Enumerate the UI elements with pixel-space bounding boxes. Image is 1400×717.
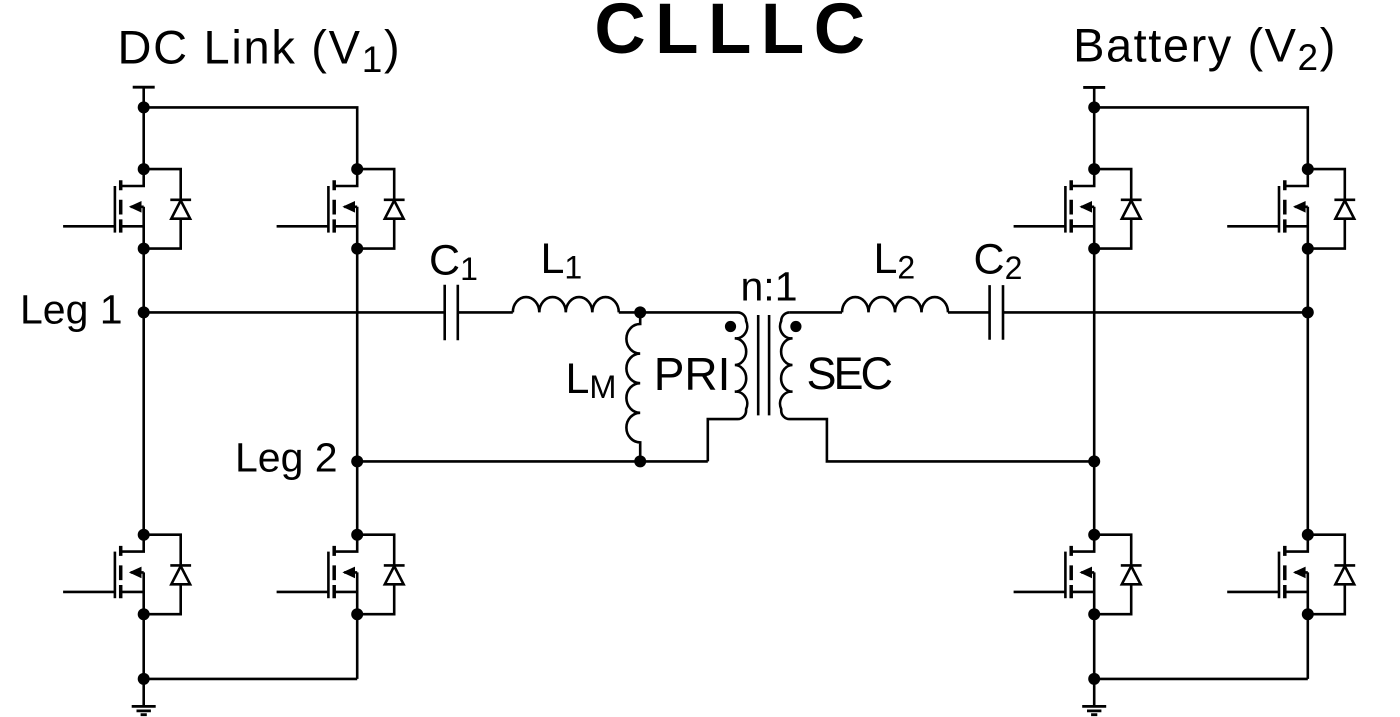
transistor Q8 (right bridge, right leg low side) [1227, 529, 1355, 621]
wire: L2 to C2 [948, 311, 989, 314]
secondary polarity dot [790, 321, 801, 332]
transistor Q1 (left bridge, leg1 high side) [63, 163, 191, 255]
node Leg 1 (dot) [138, 306, 150, 318]
node DC+ (dot) [138, 101, 150, 113]
transformer primary winding [640, 312, 747, 461]
wire: right bridge right leg mid [1307, 249, 1310, 535]
svg-text:LM: LM [566, 355, 617, 405]
transistor Q5 (right bridge, left leg high side) [1014, 163, 1142, 255]
svg-text:CLLLC: CLLLC [594, 0, 874, 69]
svg-text:L1: L1 [541, 235, 583, 286]
svg-text:n:1: n:1 [741, 264, 798, 310]
svg-text:Battery (V2): Battery (V2) [1073, 19, 1337, 78]
wire: Leg 1 to C1 [144, 311, 444, 314]
transistor Q7 (right bridge, left leg low side) [1014, 529, 1142, 621]
wire: SEC to L2 [790, 311, 842, 314]
transistor Q4 (left bridge, leg2 low side) [277, 529, 405, 621]
wire: C2 to right bridge leg2 [1003, 311, 1308, 314]
node BAT+ (dot) [1088, 101, 1100, 113]
svg-text:DC Link (V1): DC Link (V1) [117, 21, 401, 80]
transistor Q3 (left bridge, leg1 low side) [63, 529, 191, 621]
wire: C1 to L1 [458, 311, 513, 314]
wire: right bridge top rail [1094, 107, 1308, 169]
svg-text:C1: C1 [429, 237, 478, 288]
svg-text:Leg 1: Leg 1 [20, 286, 123, 332]
capacitor C1 [445, 285, 458, 341]
wire: right leg mid (Q2 source to Q4 drain) [356, 249, 359, 535]
wire: right bridge left leg mid [1093, 249, 1096, 535]
node Leg 2 (dot) [351, 455, 363, 467]
node DC- (dot) [138, 673, 150, 685]
transistor Q2 (left bridge, leg2 high side) [277, 163, 405, 255]
wire: L1 to node A [619, 311, 640, 314]
svg-text:L2: L2 [874, 235, 916, 286]
wire: Leg 2 to node B [357, 460, 640, 463]
inductor L1 [513, 297, 619, 312]
primary polarity dot [725, 321, 736, 332]
node right leg1 (dot) [1302, 306, 1314, 318]
wire: right bridge bottom rail [1094, 614, 1308, 679]
svg-text:SEC: SEC [807, 348, 892, 399]
wire: left bridge bottom rail [144, 614, 358, 679]
transformer core [758, 315, 769, 415]
inductor L2 [842, 297, 948, 312]
inductor Lm (magnetizing) [626, 312, 640, 461]
ground (right) [1082, 679, 1106, 715]
svg-text:C2: C2 [974, 235, 1023, 286]
DC link positive terminal [133, 87, 155, 107]
svg-text:PRI: PRI [654, 348, 731, 400]
node right leg2 (dot) [1088, 455, 1100, 467]
node BAT- (dot) [1088, 673, 1100, 685]
transformer secondary winding [780, 312, 1094, 461]
node A (dot, top of Lm) [634, 306, 646, 318]
ground (left) [132, 679, 156, 715]
battery positive terminal [1083, 87, 1105, 107]
node B (dot, bottom of Lm) [634, 455, 646, 467]
wire: left leg mid (Q1 source to Q3 drain) [142, 249, 145, 535]
capacitor C2 [990, 285, 1003, 340]
transistor Q6 (right bridge, right leg high side) [1227, 163, 1355, 255]
svg-text:Leg 2: Leg 2 [235, 434, 338, 480]
wire: left bridge top rail [144, 107, 358, 169]
